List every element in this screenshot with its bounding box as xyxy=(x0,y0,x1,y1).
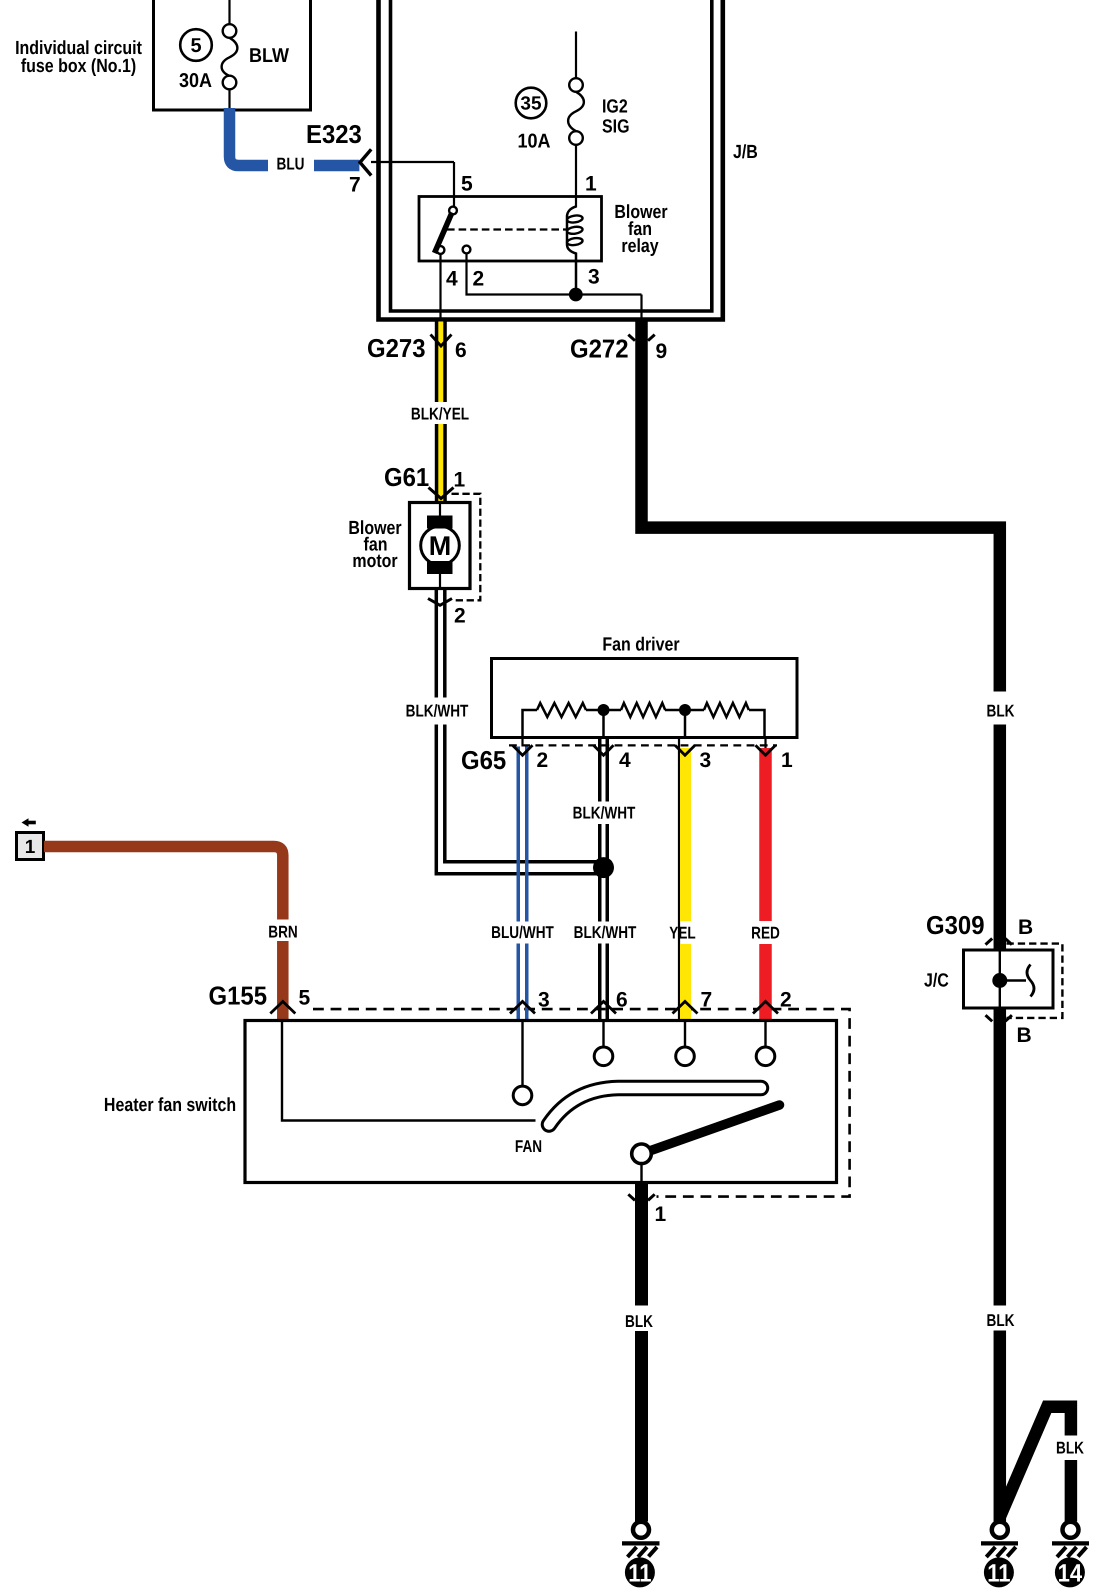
svg-text:1: 1 xyxy=(655,1203,667,1226)
svg-text:7: 7 xyxy=(701,989,713,1012)
svg-text:2: 2 xyxy=(780,989,792,1012)
svg-text:3: 3 xyxy=(700,749,712,772)
svg-text:motor: motor xyxy=(352,551,398,572)
svg-text:B: B xyxy=(1017,1024,1032,1047)
svg-text:BLU: BLU xyxy=(277,155,305,174)
svg-text:6: 6 xyxy=(616,989,628,1012)
svg-text:BLK/WHT: BLK/WHT xyxy=(574,923,637,942)
svg-text:SIG: SIG xyxy=(602,117,629,138)
svg-text:6: 6 xyxy=(455,339,467,362)
svg-text:BLK: BLK xyxy=(987,1311,1016,1330)
svg-text:FAN: FAN xyxy=(515,1137,542,1156)
svg-text:J/C: J/C xyxy=(924,971,949,992)
svg-text:10A: 10A xyxy=(517,131,550,153)
svg-text:9: 9 xyxy=(656,340,668,363)
svg-text:5: 5 xyxy=(461,173,473,196)
svg-text:G155: G155 xyxy=(209,981,268,1011)
svg-text:BLK: BLK xyxy=(625,1312,654,1331)
svg-text:2: 2 xyxy=(537,749,549,772)
svg-text:BLU/WHT: BLU/WHT xyxy=(491,923,554,942)
svg-text:5: 5 xyxy=(299,987,311,1010)
svg-text:RED: RED xyxy=(751,924,780,943)
svg-text:1: 1 xyxy=(781,749,793,772)
svg-text:M: M xyxy=(429,531,452,561)
svg-text:35: 35 xyxy=(520,94,542,115)
svg-text:4: 4 xyxy=(446,268,458,291)
svg-text:1: 1 xyxy=(585,173,597,196)
svg-text:BLK/YEL: BLK/YEL xyxy=(411,405,469,424)
svg-text:1: 1 xyxy=(25,837,36,858)
svg-text:1: 1 xyxy=(454,469,466,492)
svg-text:5: 5 xyxy=(190,35,201,57)
svg-text:YEL: YEL xyxy=(669,924,695,943)
svg-text:IG2: IG2 xyxy=(602,97,628,118)
svg-text:J/B: J/B xyxy=(733,142,758,163)
svg-text:BLK/WHT: BLK/WHT xyxy=(573,804,636,823)
svg-text:B: B xyxy=(1018,916,1033,939)
svg-text:G65: G65 xyxy=(461,745,506,775)
svg-text:Fan driver: Fan driver xyxy=(602,635,680,656)
svg-text:7: 7 xyxy=(349,174,361,197)
svg-text:14: 14 xyxy=(1058,1559,1083,1587)
svg-text:11: 11 xyxy=(987,1559,1010,1587)
svg-text:BLK: BLK xyxy=(1056,1439,1085,1458)
svg-text:30A: 30A xyxy=(179,70,212,92)
svg-text:2: 2 xyxy=(473,268,485,291)
svg-text:G272: G272 xyxy=(570,334,629,364)
svg-text:G61: G61 xyxy=(384,462,429,492)
svg-text:3: 3 xyxy=(588,266,600,289)
svg-text:fuse box (No.1): fuse box (No.1) xyxy=(21,56,136,77)
svg-text:E323: E323 xyxy=(306,119,362,149)
svg-text:G273: G273 xyxy=(367,333,426,363)
svg-text:BLK: BLK xyxy=(987,702,1016,721)
svg-text:relay: relay xyxy=(621,236,659,257)
svg-text:3: 3 xyxy=(538,989,550,1012)
svg-text:BRN: BRN xyxy=(268,923,297,942)
svg-text:Heater fan switch: Heater fan switch xyxy=(104,1095,236,1116)
svg-text:BLK/WHT: BLK/WHT xyxy=(406,702,469,721)
svg-text:G309: G309 xyxy=(926,910,985,940)
svg-text:4: 4 xyxy=(619,749,631,772)
svg-text:11: 11 xyxy=(628,1559,651,1587)
svg-text:2: 2 xyxy=(454,605,466,628)
svg-text:BLW: BLW xyxy=(249,45,289,67)
